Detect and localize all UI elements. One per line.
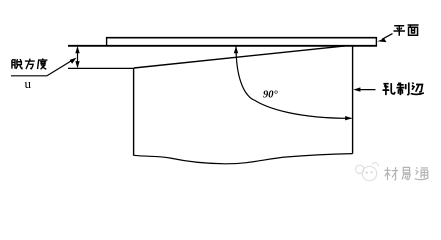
plane leader arrow — [382, 34, 393, 40]
svg-text:90°: 90° — [263, 90, 279, 101]
slab right edge (rolled edge) — [352, 46, 354, 154]
plate top edge — [106, 37, 377, 39]
watermark text 材易通 — [384, 167, 428, 180]
90-degree arc — [236, 46, 351, 118]
vertical arrow of angle arc (points up to plane) — [234, 46, 238, 53]
plate left edge — [106, 37, 108, 46]
label 轧制边 — [383, 83, 424, 96]
slab slanted top surface — [134, 46, 345, 68]
dimension line u (double arrow) — [77, 48, 79, 68]
plate bottom edge (reference plane line) — [68, 45, 377, 47]
arc end arrow (points right to rolled edge) — [345, 116, 352, 120]
rolled edge leader arrow — [359, 89, 376, 91]
slab top-left extension line — [68, 67, 134, 69]
svg-text:u: u — [25, 76, 32, 91]
plate right edge — [375, 37, 377, 46]
label 平面 — [394, 25, 419, 36]
wavy break line at bottom — [134, 154, 353, 164]
label 脱方度 — [12, 58, 47, 69]
watermark icon — [356, 163, 379, 181]
leader line from label to dimension — [11, 75, 47, 77]
slab left edge — [133, 68, 135, 155]
